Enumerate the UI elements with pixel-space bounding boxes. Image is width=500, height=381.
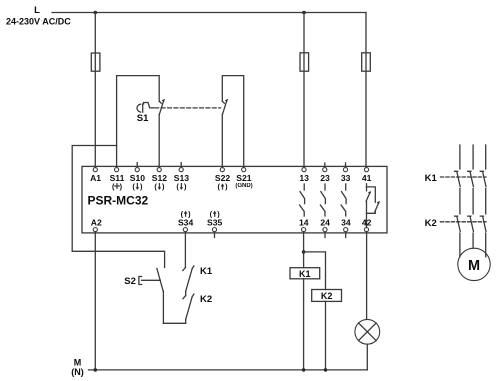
terminal 42 — [364, 228, 368, 232]
svg-text:(N): (N) — [71, 367, 84, 377]
terminal S35 — [212, 228, 216, 232]
fuse F3 — [362, 53, 371, 71]
terminal S22 — [220, 168, 224, 172]
svg-text:K1: K1 — [425, 173, 438, 184]
svg-text:A1: A1 — [90, 173, 101, 183]
junction at 14 branch — [302, 250, 306, 254]
terminal 33 — [343, 168, 347, 172]
contact K1 NC seat — [183, 268, 186, 271]
svg-text:24-230V AC/DC: 24-230V AC/DC — [6, 17, 71, 27]
terminal S35 stub — [214, 232, 216, 238]
wire K2 coil to N rail — [325, 301, 327, 370]
terminal S13 — [179, 168, 183, 172]
wire 42 down to lamp — [366, 232, 368, 320]
contactor K2 contacts row — [455, 216, 487, 231]
terminal 24 stub — [324, 232, 326, 238]
terminal S12 — [157, 168, 161, 172]
svg-text:(GND): (GND) — [235, 183, 252, 189]
svg-text:S34: S34 — [178, 218, 194, 228]
S1 contact B arm — [223, 101, 227, 115]
svg-text:K1: K1 — [299, 269, 311, 279]
coil K2 — [312, 290, 342, 302]
terminal A2 — [93, 228, 97, 232]
wire A1 column — [94, 13, 96, 168]
terminal 23 — [323, 168, 327, 172]
svg-text:34: 34 — [341, 218, 351, 228]
wire 41 column — [365, 13, 367, 168]
terminal 23 stub — [324, 163, 326, 168]
svg-text:14: 14 — [299, 218, 309, 228]
svg-text:23: 23 — [320, 173, 330, 183]
indicator lamp — [355, 319, 380, 344]
wire K2 tail — [185, 319, 187, 323]
wire A2 down to N rail — [94, 232, 96, 370]
wire K1 coil to N rail — [303, 279, 305, 370]
svg-text:33: 33 — [341, 173, 351, 183]
junction A2 on N rail — [94, 368, 98, 372]
terminal 34 stub — [345, 232, 347, 238]
wire S2 tail — [162, 291, 164, 323]
fuse F1 — [91, 53, 100, 71]
svg-text:24: 24 — [320, 218, 330, 228]
svg-text:PSR-MC32: PSR-MC32 — [88, 194, 149, 208]
wire S34 down — [184, 232, 186, 268]
terminal 33 stub — [345, 163, 347, 168]
terminal 13 — [302, 168, 306, 172]
terminal 41 — [364, 168, 368, 172]
terminal A1 — [93, 168, 97, 172]
junction K1 on N rail — [302, 368, 306, 372]
junction on L rail at 13 column — [302, 11, 306, 15]
wire S11 loop: S11 up, over to S12 column — [117, 76, 160, 168]
relay PSR-MC32 body — [82, 166, 387, 233]
terminal S21 — [242, 168, 246, 172]
fuse F2 — [300, 53, 309, 71]
S1 contact A arm — [159, 101, 163, 115]
relay contact 33-34 — [341, 184, 346, 216]
svg-text:41: 41 — [362, 173, 372, 183]
S2 actuator rod — [142, 279, 161, 281]
terminal 34 — [344, 228, 348, 232]
emergency stop S1 actuator mushroom — [137, 104, 141, 112]
wire bottom of reset chain — [163, 322, 185, 324]
terminal 14 — [302, 228, 306, 232]
contact K1 NC arm — [186, 266, 194, 291]
wire S12 column lower — [158, 114, 160, 167]
S1 contact A seat tick — [159, 101, 161, 103]
wire S22 loop top over to S21 — [222, 76, 243, 168]
terminal S10 stub — [136, 163, 138, 168]
S2 contact arm — [157, 269, 163, 292]
reset button S2 bracket — [139, 277, 142, 285]
wire branch to K2 coil — [304, 252, 326, 290]
contactor K1 dashed link — [441, 176, 487, 178]
dashed mechanical link S1 — [155, 107, 221, 109]
wire lamp to N rail — [366, 344, 368, 370]
relay contact 23-24 — [320, 184, 325, 216]
svg-text:42: 42 — [362, 218, 372, 228]
svg-text:S2: S2 — [124, 276, 136, 287]
contactor phase lines middle — [460, 189, 486, 214]
svg-text:13: 13 — [299, 173, 309, 183]
S1 contact B seat tick — [222, 101, 224, 103]
contactor K2 dashed link — [441, 221, 487, 223]
relay contact 13-14 — [300, 184, 305, 216]
contact K2 NC arm — [186, 294, 194, 319]
svg-text:L: L — [34, 5, 40, 16]
wire between K1 and K2 contacts — [185, 291, 187, 295]
terminal S34 — [183, 228, 187, 232]
wire 13 column — [303, 13, 305, 168]
svg-text:K1: K1 — [200, 266, 213, 277]
junction on L rail at A1 column — [94, 11, 98, 15]
terminal S13 stub — [180, 163, 182, 168]
contactor K1 contacts row — [455, 171, 487, 186]
contactor phase lines top — [460, 145, 486, 169]
S1 contact A arrowhead — [162, 99, 165, 103]
terminal S11 — [115, 168, 119, 172]
svg-text:K2: K2 — [425, 218, 437, 229]
svg-text:S21: S21 — [236, 173, 252, 183]
svg-text:S1: S1 — [137, 113, 149, 124]
coil K1 — [290, 268, 320, 279]
terminal 24 — [323, 228, 327, 232]
svg-text:K2: K2 — [321, 291, 333, 301]
S1 actuator bar — [142, 104, 144, 112]
svg-text:A2: A2 — [91, 218, 102, 228]
junction K2 on N rail — [324, 368, 328, 372]
S1 actuator T-top — [144, 103, 154, 108]
wire L rail — [52, 12, 366, 14]
svg-text:M: M — [74, 357, 82, 367]
relay contact 41-42 NC pair — [366, 184, 380, 228]
S1 contact B arrowhead — [225, 99, 228, 103]
wire N rail — [89, 369, 368, 371]
wire 14 down to K1 coil — [303, 232, 305, 268]
svg-text:M: M — [468, 258, 480, 274]
contactor phase lines lower — [460, 233, 486, 257]
svg-text:S35: S35 — [207, 218, 223, 228]
svg-text:K2: K2 — [200, 294, 212, 305]
wire S22 column upper — [221, 114, 223, 167]
wire reset branch from S11 column to S2 — [72, 146, 164, 268]
contact K2 NC seat — [183, 296, 186, 299]
motor M1 — [458, 248, 490, 280]
terminal S10 — [135, 168, 139, 172]
